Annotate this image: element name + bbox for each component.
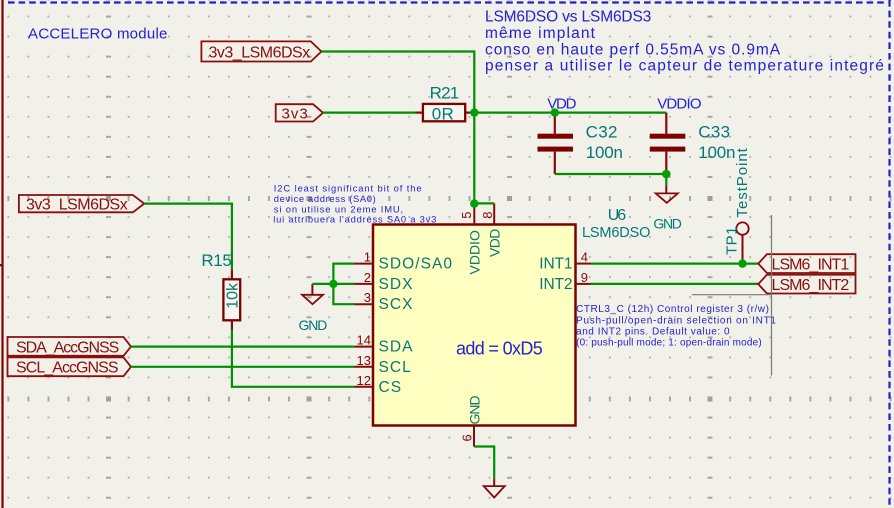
svg-text:I2C least significant bit of t: I2C least significant bit of the xyxy=(274,183,423,194)
wire INT2 xyxy=(591,283,758,285)
svg-text:SCL: SCL xyxy=(379,359,412,376)
svg-text:GND: GND xyxy=(299,317,328,333)
sheet frame zone tick xyxy=(0,264,3,266)
svg-text:LSM6_INT1: LSM6_INT1 xyxy=(772,256,850,273)
hierarchical label LSM6_INT1 xyxy=(758,254,855,273)
hierarchical label SDA_AccGNSS xyxy=(8,337,132,356)
svg-text:VDD: VDD xyxy=(487,229,503,257)
pin 9 INT2 xyxy=(539,270,591,293)
svg-text:penser a utiliser le capteur d: penser a utiliser le capteur de temperat… xyxy=(485,58,885,75)
wire R15 to CS pin xyxy=(232,330,355,387)
wire from 3v3_LSM6DSx to VDD rail corner xyxy=(321,52,474,113)
junction at R21 output xyxy=(470,108,478,116)
svg-text:LSM6DSO vs LSM6DS3: LSM6DSO vs LSM6DS3 xyxy=(485,9,651,26)
pin 6 GND (bottom) xyxy=(460,396,483,447)
bracket wire pins 1-3 xyxy=(333,264,354,305)
junction at C33 bottom xyxy=(662,170,671,179)
capacitor C33 xyxy=(650,113,736,174)
resistor R21 xyxy=(416,84,475,124)
junction at bracket pin 2 xyxy=(329,280,337,288)
svg-text:SDX: SDX xyxy=(379,276,414,293)
capacitor C32 xyxy=(538,113,623,174)
page limit dashed top xyxy=(8,1,886,3)
svg-text:C33: C33 xyxy=(698,123,730,142)
svg-text:12: 12 xyxy=(357,373,371,388)
pin 2 SDX xyxy=(355,270,414,293)
junction at pin 5 xyxy=(470,199,478,207)
svg-text:100n: 100n xyxy=(698,143,735,162)
svg-text:device address (SA0): device address (SA0) xyxy=(274,193,377,204)
page limit dashed right xyxy=(888,0,890,508)
sheet frame left edge xyxy=(1,0,3,508)
pin 13 SCL xyxy=(355,353,412,376)
svg-text:add = 0xD5: add = 0xD5 xyxy=(456,339,543,359)
bracket wire into pin 2 xyxy=(333,283,354,285)
svg-text:1: 1 xyxy=(364,250,371,265)
svg-text:CTRL3_C (12h) Control register: CTRL3_C (12h) Control register 3 (r/w) xyxy=(576,304,769,315)
svg-text:VDDIO: VDDIO xyxy=(657,95,701,112)
svg-text:GND: GND xyxy=(466,396,482,425)
svg-text:VDD: VDD xyxy=(547,95,576,112)
wire 3v3_LSM6DSx to R15 xyxy=(144,204,232,271)
hierarchical label 3v3_LSM6DSx (top) xyxy=(201,41,321,61)
svg-text:3v3_LSM6DSx: 3v3_LSM6DSx xyxy=(26,196,128,213)
wire GND to bracket junction xyxy=(312,283,333,285)
ground symbol below IC pin 6 xyxy=(474,447,505,498)
note block LSM6DSO vs LSM6DS3 xyxy=(485,9,885,75)
pin 4 INT1 xyxy=(539,250,591,273)
svg-text:SDO/SA0: SDO/SA0 xyxy=(379,256,454,273)
svg-text:Push-pull/open-drain selection: Push-pull/open-drain selection on INT1 xyxy=(576,315,777,326)
svg-text:13: 13 xyxy=(357,353,371,368)
svg-text:(0: push-pull mode; 1: open-dr: (0: push-pull mode; 1: open-drain mode) xyxy=(576,338,762,349)
note block CTRL3_C control register xyxy=(576,304,777,349)
svg-text:8: 8 xyxy=(480,212,495,219)
svg-text:SCL_AccGNSS: SCL_AccGNSS xyxy=(16,360,118,377)
svg-text:SDA: SDA xyxy=(379,339,414,356)
svg-text:and INT2 pins. Default value:: and INT2 pins. Default value: 0 xyxy=(576,326,730,337)
svg-text:5: 5 xyxy=(459,212,474,219)
svg-text:lui attribuera l'address SA0 a: lui attribuera l'address SA0 a 3v3 xyxy=(273,214,437,225)
pin 12 CS xyxy=(355,373,403,396)
hierarchical label 3v3_LSM6DSx (left) xyxy=(19,195,144,213)
pin 1 SDO/SA0 xyxy=(355,250,454,273)
svg-text:9: 9 xyxy=(581,270,588,285)
wire INT1 xyxy=(591,263,758,265)
svg-text:VDDIO: VDDIO xyxy=(467,230,483,274)
svg-text:LSM6_INT2: LSM6_INT2 xyxy=(772,277,850,294)
svg-text:14: 14 xyxy=(357,333,371,348)
svg-text:CS: CS xyxy=(379,379,403,396)
note block I2C least significant bit xyxy=(273,183,437,225)
svg-text:GND: GND xyxy=(653,216,681,232)
wire 3v3_LSM6DSx rail down to IC pin5 xyxy=(473,113,475,204)
wire SCL xyxy=(131,366,355,368)
ground symbol at SDX/SCX bracket xyxy=(299,284,328,333)
IC U6 body xyxy=(373,225,576,426)
svg-text:10k: 10k xyxy=(225,282,242,309)
svg-text:4: 4 xyxy=(581,250,588,265)
svg-text:3v3: 3v3 xyxy=(282,105,309,122)
wire pin8 to pin5 junction xyxy=(474,202,494,204)
hierarchical label LSM6_INT2 xyxy=(758,275,855,294)
cursor crosshair xyxy=(692,215,772,376)
test point TP1 xyxy=(724,147,752,263)
svg-text:R21: R21 xyxy=(430,84,459,103)
svg-text:R15: R15 xyxy=(201,251,231,270)
junction at TP1 xyxy=(738,259,746,267)
wire 3v3 to R21 xyxy=(323,111,416,113)
svg-text:SDA_AccGNSS: SDA_AccGNSS xyxy=(16,339,119,356)
wire SDA xyxy=(131,346,355,348)
svg-text:TestPoint: TestPoint xyxy=(734,147,751,217)
svg-text:6: 6 xyxy=(460,434,475,441)
svg-text:U6: U6 xyxy=(608,207,627,224)
svg-text:ACCELERO module: ACCELERO module xyxy=(28,26,168,43)
svg-text:INT2: INT2 xyxy=(539,276,572,293)
hierarchical label 3v3 xyxy=(276,104,323,122)
svg-text:SCX: SCX xyxy=(379,296,414,313)
svg-text:0R: 0R xyxy=(432,104,454,123)
svg-text:TP1: TP1 xyxy=(724,226,741,255)
pin 8 VDD (top) xyxy=(480,203,503,257)
junction at VDD xyxy=(551,108,559,116)
pin 5 VDDIO (top) xyxy=(459,204,483,275)
svg-text:conso en haute perf 0.55mA vs: conso en haute perf 0.55mA vs 0.9mA xyxy=(485,41,781,58)
svg-text:LSM6DSO: LSM6DSO xyxy=(582,225,650,241)
svg-text:3v3_LSM6DSx: 3v3_LSM6DSx xyxy=(209,44,311,61)
svg-text:C32: C32 xyxy=(586,123,618,142)
svg-text:2: 2 xyxy=(364,270,371,285)
pin 3 SCX xyxy=(355,290,414,313)
hierarchical label SCL_AccGNSS xyxy=(8,357,132,376)
svg-text:même implant: même implant xyxy=(485,25,596,42)
wire joining capacitor bottoms xyxy=(555,173,667,175)
svg-text:INT1: INT1 xyxy=(539,256,572,273)
resistor R15 xyxy=(201,251,241,330)
svg-text:100n: 100n xyxy=(586,143,623,162)
svg-text:3: 3 xyxy=(364,290,371,305)
wire VDD rail xyxy=(474,111,666,113)
pin 14 SDA xyxy=(355,333,414,356)
ground symbol below capacitors xyxy=(653,174,681,232)
